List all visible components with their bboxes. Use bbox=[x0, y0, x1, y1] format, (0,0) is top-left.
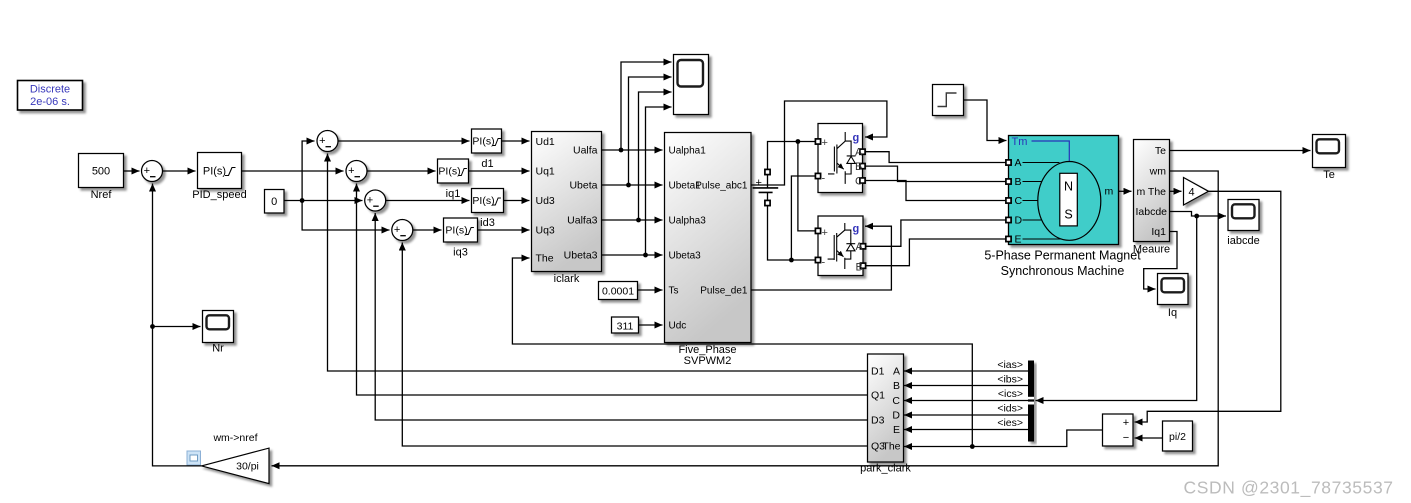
node junction Ubeta3 branch bbox=[643, 253, 648, 258]
wire PI iq1 to iclark Uq1 bbox=[469, 170, 530, 172]
step source Tm bbox=[933, 85, 964, 116]
svg-text:PID_speed: PID_speed bbox=[192, 189, 246, 201]
svg-text:Ualfa: Ualfa bbox=[573, 145, 598, 157]
svg-text:The: The bbox=[536, 253, 554, 265]
constant Udc 311 bbox=[612, 317, 639, 333]
svg-text:+: + bbox=[348, 165, 354, 177]
bus selector bar bbox=[1028, 361, 1034, 442]
wire inverter1 A to machine A bbox=[865, 152, 1006, 163]
wire minus bus branch to inverter1 bbox=[791, 176, 815, 260]
wire Ts to SVPWM2 bbox=[638, 289, 663, 291]
svg-text:B: B bbox=[855, 161, 862, 173]
svg-text:<ibs>: <ibs> bbox=[997, 374, 1023, 386]
svg-text:d1: d1 bbox=[481, 158, 493, 170]
svg-text:N: N bbox=[1064, 180, 1073, 194]
svg-text:0.0001: 0.0001 bbox=[602, 285, 634, 297]
svg-text:<ics>: <ics> bbox=[998, 388, 1023, 400]
wire PI id3 to iclark Ud3 bbox=[504, 200, 530, 202]
wire Udc to SVPWM2 bbox=[639, 324, 663, 326]
svg-text:Ubeta3: Ubeta3 bbox=[564, 250, 598, 262]
wire Ualfa branch to scope input1 bbox=[621, 62, 672, 150]
svg-text:D3: D3 bbox=[871, 415, 885, 427]
node junction on 0 wire bbox=[300, 198, 305, 203]
svg-text:g: g bbox=[853, 223, 860, 235]
svg-text:C: C bbox=[1015, 195, 1023, 207]
svg-text:PI(s): PI(s) bbox=[445, 225, 467, 237]
wire bus out ies to park_clark E bbox=[904, 429, 1028, 431]
svg-text:C: C bbox=[855, 176, 863, 188]
wire 0 branch down to sum Sd bbox=[302, 201, 389, 231]
machine 5-Phase PMSM bbox=[984, 136, 1141, 279]
wire pi/2 to sum square minus input bbox=[1135, 437, 1163, 439]
svg-text:pi/2: pi/2 bbox=[1169, 431, 1186, 443]
wire The branch up and left to iclark The bbox=[512, 258, 972, 447]
scope Te bbox=[1313, 135, 1346, 182]
gain 4 triangle bbox=[1184, 178, 1209, 206]
svg-text:<ias>: <ias> bbox=[997, 359, 1023, 371]
svg-text:iclark: iclark bbox=[554, 273, 580, 285]
wire Meaure wm down and left to gain 30/pi bbox=[272, 171, 1219, 466]
wire Meaure The to gain4 bbox=[1170, 190, 1182, 192]
svg-text:Nref: Nref bbox=[91, 189, 113, 201]
svg-text:Ud1: Ud1 bbox=[536, 136, 555, 148]
wire Ubeta branch to scope input2 bbox=[629, 77, 672, 185]
constant pi/2 bbox=[1163, 421, 1193, 451]
sum Sa d-axis1 bbox=[317, 131, 338, 152]
scope iabcde bbox=[1227, 200, 1259, 248]
node junction on speed feedback bbox=[150, 324, 155, 329]
svg-text:Te: Te bbox=[1155, 145, 1166, 157]
wire gain4 output to sum square plus input bbox=[1135, 191, 1281, 422]
wire step to machine Tm bbox=[964, 100, 1007, 141]
svg-text:E: E bbox=[893, 424, 900, 436]
constant Ts 0.0001 bbox=[599, 282, 638, 300]
svg-text:0: 0 bbox=[271, 196, 277, 208]
svg-text:<ids>: <ids> bbox=[997, 403, 1023, 415]
svg-text:<ies>: <ies> bbox=[997, 417, 1023, 429]
sum Sd q-axis3 bbox=[392, 220, 413, 241]
wire Pulse_de1 to inverter2 gate bbox=[751, 226, 891, 290]
wire 0 to sum Sc with junction bbox=[284, 200, 363, 202]
svg-text:Ubeta: Ubeta bbox=[569, 180, 597, 192]
wire 0 branch up to sum Sa bbox=[302, 141, 314, 201]
wire Pulse_abc1 to inverter1 gate bbox=[751, 101, 887, 185]
svg-text:id3: id3 bbox=[480, 217, 495, 229]
wire Sb to PI iq1 bbox=[367, 170, 436, 172]
svg-text:+: + bbox=[367, 195, 373, 207]
PI controller d1 bbox=[472, 129, 502, 170]
inverter2 two-arm IGBT bridge bbox=[815, 216, 865, 276]
wire machine m to Meaure bbox=[1119, 190, 1132, 192]
svg-text:30/pi: 30/pi bbox=[236, 461, 259, 473]
svg-text:+: + bbox=[1123, 417, 1129, 429]
svg-text:PI(s): PI(s) bbox=[438, 166, 460, 178]
node junction Iabcde branch bbox=[1194, 214, 1199, 219]
wire bus out ias to park_clark A bbox=[904, 370, 1028, 372]
svg-text:m: m bbox=[1105, 186, 1114, 198]
wire Meaure Te to scope Te bbox=[1170, 150, 1311, 152]
svg-text:Iq: Iq bbox=[1168, 307, 1177, 319]
wire Nref to sum S1 bbox=[124, 170, 140, 172]
wire Ualfa3 branch to scope input3 bbox=[639, 92, 672, 220]
svg-text:Synchronous Machine: Synchronous Machine bbox=[1001, 264, 1125, 278]
svg-text:Uq1: Uq1 bbox=[536, 166, 555, 178]
sum S1 speed error bbox=[142, 161, 163, 182]
wire sum square output to park_clark The bbox=[904, 430, 1103, 447]
sum Sc d-axis3 bbox=[365, 190, 386, 211]
wire Ubeta3 branch to scope input4 bbox=[646, 107, 672, 255]
svg-text:311: 311 bbox=[617, 320, 634, 332]
wire bus out ibs to park_clark B bbox=[904, 385, 1028, 387]
node junction Ualfa3 branch bbox=[636, 218, 641, 223]
svg-text:500: 500 bbox=[92, 166, 110, 178]
annotation Discrete 2e-06 s. bbox=[18, 81, 83, 111]
wire Sd to PI iq3 bbox=[413, 229, 442, 231]
svg-text:B: B bbox=[856, 262, 863, 274]
svg-text:The: The bbox=[1148, 186, 1166, 198]
svg-text:D: D bbox=[892, 410, 900, 422]
svg-text:wm->nref: wm->nref bbox=[212, 432, 257, 444]
wire battery plus bus to inverter1 bbox=[768, 142, 816, 170]
wire S1 to PID_speed bbox=[163, 170, 196, 172]
wire iclark Ualfa to SVPWM2 Ualpha1 bbox=[602, 149, 663, 151]
svg-text:-: - bbox=[822, 257, 826, 269]
svg-text:wm: wm bbox=[1149, 166, 1167, 178]
svg-text:Ualpha3: Ualpha3 bbox=[669, 216, 707, 227]
svg-text:−: − bbox=[1123, 432, 1129, 444]
wire inverter2 A to machine D bbox=[866, 220, 1006, 246]
DC source battery bbox=[753, 169, 779, 205]
subsystem Meaure bbox=[1133, 140, 1170, 256]
wire iclark Ubeta3 to SVPWM2 Ubeta3 bbox=[602, 254, 663, 256]
wire 30/pi output up to sum S1 bbox=[153, 184, 202, 466]
wire Meaure Iabcde to scope iabcde bbox=[1170, 212, 1227, 217]
svg-text:CSDN @2301_78735537: CSDN @2301_78735537 bbox=[1184, 478, 1394, 499]
svg-text:Tm: Tm bbox=[1012, 136, 1028, 148]
scope voltages 4-input bbox=[674, 55, 709, 115]
node junction Ualfa branch bbox=[619, 148, 624, 153]
svg-text:D: D bbox=[1015, 215, 1023, 227]
wire park_clark D3 feedback to sum Sc bbox=[375, 213, 867, 420]
wire PI iq3 to iclark Uq3 bbox=[478, 229, 530, 231]
wire park_clark Q3 feedback to sum Sd bbox=[402, 243, 867, 447]
wire Sc to PI id3 bbox=[386, 200, 470, 202]
node junction The branch bbox=[970, 444, 975, 449]
wire PID_speed to sum Sb bbox=[242, 170, 344, 172]
svg-text:B: B bbox=[1015, 176, 1022, 188]
subsystem park_clark bbox=[860, 354, 911, 475]
wire iclark Ualfa3 to SVPWM2 Ualpha3 bbox=[602, 219, 663, 221]
svg-text:m: m bbox=[1137, 186, 1146, 198]
svg-text:-: - bbox=[822, 173, 826, 185]
wire Meaure Iq1 to scope Iq bbox=[1144, 232, 1177, 290]
svg-text:Pulse_abc1: Pulse_abc1 bbox=[695, 181, 748, 192]
svg-text:A: A bbox=[856, 241, 864, 253]
svg-text:A: A bbox=[1015, 157, 1022, 169]
PI controller iq3 bbox=[444, 218, 478, 259]
wire junction to scope Nr bbox=[153, 326, 201, 328]
svg-text:+: + bbox=[822, 137, 828, 149]
node junction minus bus bbox=[789, 258, 794, 263]
PI controller iq1 bbox=[438, 159, 469, 200]
gain wm->nref 30/pi triangle bbox=[202, 432, 270, 484]
scope Nr bbox=[203, 311, 234, 355]
wire battery minus bus to inverter2 bbox=[768, 206, 816, 260]
svg-text:PI(s): PI(s) bbox=[472, 136, 494, 148]
wire park_clark D1 feedback to sum Sa bbox=[328, 154, 868, 372]
svg-text:g: g bbox=[853, 132, 860, 144]
constant 0 bbox=[265, 190, 285, 214]
svg-text:SVPWM2: SVPWM2 bbox=[684, 355, 732, 367]
svg-text:+: + bbox=[319, 135, 325, 147]
svg-text:C: C bbox=[892, 395, 900, 407]
svg-text:Pulse_de1: Pulse_de1 bbox=[700, 286, 748, 297]
wire inverter1 C to machine C bbox=[865, 181, 1006, 201]
svg-text:Uq3: Uq3 bbox=[536, 225, 555, 237]
svg-text:5-Phase Permanent Magnet: 5-Phase Permanent Magnet bbox=[984, 249, 1141, 263]
svg-text:Ualfa3: Ualfa3 bbox=[567, 215, 598, 227]
svg-text:The: The bbox=[882, 441, 900, 453]
svg-text:Meaure: Meaure bbox=[1133, 244, 1170, 256]
wire bus out ics to park_clark C bbox=[904, 400, 1028, 402]
svg-text:iq1: iq1 bbox=[446, 188, 461, 200]
svg-text:A: A bbox=[855, 147, 863, 159]
scope Iq bbox=[1158, 274, 1189, 320]
svg-text:iabcde: iabcde bbox=[1227, 235, 1259, 247]
svg-text:4: 4 bbox=[1189, 186, 1195, 198]
wire plus bus branch to inverter2 bbox=[798, 142, 815, 231]
wire bus out ids to park_clark D bbox=[904, 414, 1028, 416]
wire Sa to PI d1 bbox=[338, 140, 470, 142]
wire park_clark Q1 feedback to sum Sb bbox=[357, 184, 868, 396]
svg-text:Ts: Ts bbox=[669, 286, 679, 297]
svg-text:Ud3: Ud3 bbox=[536, 195, 555, 207]
svg-text:B: B bbox=[893, 380, 900, 392]
constant Nref value 500 bbox=[79, 154, 124, 202]
svg-text:Iabcde: Iabcde bbox=[1135, 206, 1167, 218]
svg-text:2e-06 s.: 2e-06 s. bbox=[30, 96, 70, 108]
svg-text:E: E bbox=[1015, 234, 1022, 246]
wire inverter1 B to machine B bbox=[865, 166, 1006, 181]
svg-text:Te: Te bbox=[1323, 169, 1335, 181]
svg-text:PI(s): PI(s) bbox=[472, 195, 494, 207]
svg-text:Nr: Nr bbox=[212, 343, 224, 355]
node junction Ubeta branch bbox=[626, 183, 631, 188]
svg-text:+: + bbox=[822, 227, 828, 239]
svg-text:+: + bbox=[394, 224, 400, 236]
inverter1 three-arm IGBT bridge bbox=[815, 124, 865, 193]
node junction plus bus bbox=[796, 139, 801, 144]
svg-text:Udc: Udc bbox=[669, 321, 687, 332]
IGBT and diode glyph inverter1 bbox=[828, 132, 856, 184]
wire PI d1 to iclark Ud1 bbox=[502, 140, 530, 142]
svg-text:+: + bbox=[144, 165, 150, 177]
svg-text:PI(s): PI(s) bbox=[203, 166, 226, 178]
wire inverter2 B to machine E bbox=[866, 239, 1006, 266]
svg-text:Discrete: Discrete bbox=[30, 84, 70, 96]
svg-text:Q1: Q1 bbox=[871, 390, 885, 402]
PI controller id3 bbox=[472, 189, 504, 230]
IGBT and diode glyph inverter2 bbox=[828, 223, 856, 269]
svg-text:D1: D1 bbox=[871, 366, 885, 378]
svg-text:park_clark: park_clark bbox=[860, 463, 911, 475]
svg-text:A: A bbox=[893, 366, 900, 378]
svg-text:iq3: iq3 bbox=[453, 247, 468, 259]
subsystem Five_Phase SVPWM2 bbox=[665, 133, 752, 368]
sum Sb q-axis1 bbox=[346, 161, 367, 182]
PID controller PID_speed bbox=[192, 153, 246, 202]
svg-text:Iq1: Iq1 bbox=[1151, 226, 1166, 238]
wire Iabcde branch down to bus selector input bbox=[1036, 216, 1197, 401]
svg-text:Ubeta3: Ubeta3 bbox=[669, 251, 702, 262]
svg-text:S: S bbox=[1064, 208, 1072, 222]
sum square theta plus pi/2 bbox=[1103, 414, 1134, 446]
svg-text:Ualpha1: Ualpha1 bbox=[669, 146, 707, 157]
wire iclark Ubeta to SVPWM2 Ubeta1 bbox=[602, 184, 663, 186]
subsystem iclark bbox=[532, 132, 602, 286]
annotation icon blue box near gain tip bbox=[187, 451, 201, 465]
